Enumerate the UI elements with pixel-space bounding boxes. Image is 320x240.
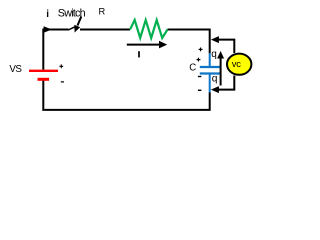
svg-text:Switch: Switch — [58, 7, 86, 19]
svg-text:q: q — [212, 74, 218, 85]
svg-text:q: q — [211, 49, 217, 60]
svg-text:VS: VS — [9, 64, 22, 75]
svg-text:vc: vc — [232, 58, 241, 69]
svg-text:R: R — [99, 6, 106, 16]
svg-text:i: i — [46, 9, 49, 20]
svg-text:C: C — [189, 62, 196, 73]
